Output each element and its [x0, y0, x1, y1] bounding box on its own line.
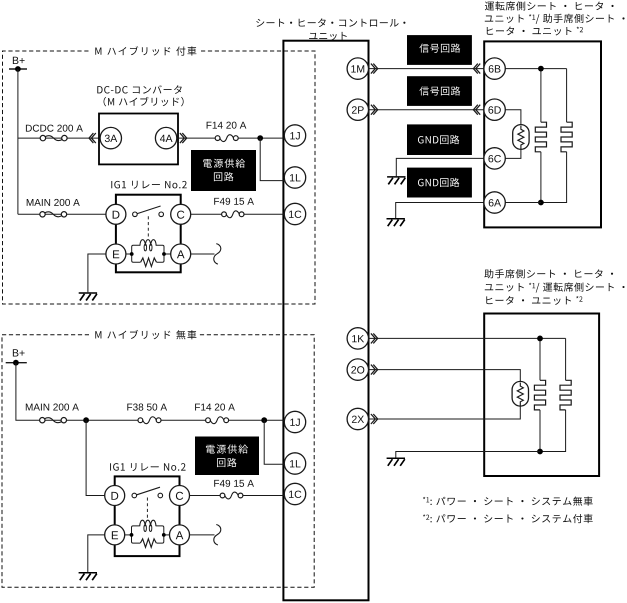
GND circuit block 2	[407, 168, 472, 198]
junction node coil left	[130, 533, 134, 537]
junction node coil right	[162, 533, 166, 537]
wire DCDC link to DC-DC converter pin 3A	[67, 137, 101, 139]
relay IG1-No.2-bottom pin A	[170, 525, 190, 545]
wire 6B to heaters	[505, 68, 567, 70]
junction heater bottom (top unit)	[538, 200, 544, 206]
label IG1 relay No.2 (top)	[111, 181, 186, 189]
wire E node to coil	[125, 534, 132, 536]
connector chevron into 3A	[89, 133, 96, 143]
wire branch to pin 1L	[260, 138, 286, 181]
relay IG1-No.2-bottom contact circle right	[158, 493, 163, 498]
label GND circuit 2	[418, 178, 459, 187]
label GND circuit 1	[418, 135, 459, 144]
label power supply circuit line2 (bottom)	[217, 458, 237, 467]
wire coil to A node	[164, 253, 171, 255]
DC-DC converter pin 3A	[100, 127, 121, 148]
wire branch to pin 1L (bottom)	[264, 420, 286, 464]
junction relay branch (bottom)	[83, 417, 89, 423]
power supply circuit block (top)	[191, 150, 256, 191]
wire MAIN row	[18, 213, 40, 215]
chevron out of 2X	[371, 414, 378, 424]
heater element 2 (bottom unit)	[565, 338, 567, 380]
footnote 1	[423, 497, 429, 503]
wire 4A to F14 fuse	[177, 137, 216, 139]
control unit pin 2X	[347, 408, 368, 429]
relay IG1-No.2-top switch blade	[137, 206, 160, 214]
wire F49 to pin 1C (bottom)	[243, 495, 286, 497]
heater unit header (bottom)	[484, 269, 613, 278]
wire thermistor to 2X	[368, 406, 520, 420]
label B+ (top)	[13, 57, 25, 64]
DC-DC converter pin 4A	[155, 127, 176, 148]
wire relay C to F49 (bottom)	[190, 495, 221, 497]
junction heater top (bottom unit)	[537, 336, 543, 342]
wire B+ down to MAIN row	[17, 69, 19, 214]
label signal circuit 2	[419, 86, 460, 95]
heater element 2 (top unit)	[566, 69, 568, 123]
DC-DC converter box	[99, 114, 178, 165]
wire relay A continuation	[191, 253, 215, 255]
wire relay E to ground	[88, 254, 106, 292]
ground (bottom relay)	[79, 573, 97, 581]
thermistor (bottom unit)	[512, 381, 528, 406]
chevron out of 1K	[371, 333, 378, 343]
M hybrid equipped option dashed box	[3, 51, 316, 304]
relay IG1-No.2-bottom resistor	[140, 539, 156, 548]
wire MAIN link to relay D	[66, 213, 106, 215]
heater unit pin 6D	[484, 99, 505, 120]
wire relay A continuation (bottom)	[190, 534, 215, 536]
control unit pin 1J (top)	[284, 125, 305, 146]
label DCDC 200 A	[26, 125, 83, 132]
relay IG1-No.2-bottom coil	[140, 520, 156, 526]
fusible link MAIN 200 A (top)	[40, 212, 45, 217]
ground (6C)	[387, 177, 405, 185]
chevron out of 2O	[371, 365, 378, 375]
wire 2P to 6D	[368, 109, 484, 111]
wire MAIN to F38	[66, 419, 138, 421]
label MAIN 200 A (bottom)	[26, 404, 79, 411]
control unit pin 2O	[347, 359, 368, 380]
node B+ (top)	[9, 68, 27, 70]
chevron out of 1M	[371, 64, 378, 74]
relay IG1-No.2-bottom contact circle left	[132, 493, 137, 498]
relay IG1-No.2-bottom pin E	[105, 525, 125, 545]
chevron into 6B	[473, 64, 480, 74]
label power supply circuit line1 (top)	[203, 159, 245, 168]
wire F38 to F14	[161, 419, 206, 421]
wire F14 to pin 1J	[238, 137, 286, 139]
relay IG1-No.2-bottom box	[115, 476, 180, 556]
fuse F14 20 A (bottom)	[206, 418, 211, 423]
wire thermistor to 6C	[505, 149, 521, 159]
thermistor (top unit)	[513, 125, 529, 150]
control unit pin 1C (bottom)	[284, 483, 305, 504]
label DC-DC converter line2	[104, 97, 184, 107]
junction node coil right	[162, 252, 166, 256]
label F49 15 A (bottom)	[214, 480, 254, 487]
label IG1 relay No.2 (bottom)	[110, 463, 185, 471]
control unit pin 1L (top)	[284, 167, 305, 188]
relay IG1-No.2-bottom coil/resistor frame	[132, 526, 164, 543]
heater element 1 (bottom unit)	[539, 338, 541, 380]
junction heater bottom (bottom unit)	[537, 449, 543, 455]
relay IG1-No.2-bottom coil link (dashed)	[146, 498, 148, 519]
wire junction down to relay D (bottom)	[86, 420, 105, 495]
wire 6A to heater bottoms	[505, 202, 541, 204]
label B+ (bottom)	[13, 349, 25, 356]
wire coil to A node	[164, 534, 170, 536]
relay IG1-No.2-top resistor	[141, 258, 157, 267]
relay IG1-No.2-bottom pin C	[170, 486, 190, 506]
wire 2O to thermistor	[368, 370, 520, 383]
label F14 20 A (bottom)	[195, 404, 235, 411]
relay IG1-No.2-bottom pin D	[105, 486, 125, 506]
chevron into 6D	[473, 105, 480, 115]
connector chevron out of 4A	[180, 133, 187, 143]
relay IG1-No.2-top pin D	[106, 204, 126, 224]
wire continuation curl (bottom relay A)	[214, 525, 221, 546]
footnote 2	[423, 514, 429, 520]
fuse F49 15 A (bottom)	[220, 493, 225, 498]
relay IG1-No.2-bottom switch blade	[137, 487, 160, 495]
wire 1M to 6B	[368, 68, 484, 70]
relay IG1-No.2-top pin C	[171, 204, 191, 224]
heater element 1 (top unit)	[540, 69, 542, 123]
wire relay C to F49	[191, 213, 222, 215]
control unit title	[256, 18, 405, 27]
relay IG1-No.2-top pin E	[106, 244, 126, 264]
wire heater bottoms to ground (bottom unit)	[396, 452, 540, 458]
power supply circuit block (bottom)	[195, 437, 259, 476]
ground (top relay)	[79, 293, 97, 301]
label signal circuit 1	[419, 43, 460, 52]
relay IG1-No.2-top pin A	[171, 244, 191, 264]
signal circuit block 1	[407, 35, 472, 65]
label F49 15 A (top)	[214, 198, 254, 205]
junction node coil left	[130, 252, 134, 256]
fuse F38 50 A	[138, 418, 143, 423]
label power supply circuit line2 (top)	[214, 172, 234, 181]
heater unit pin 6B	[484, 58, 505, 79]
label DC-DC converter line1	[97, 85, 181, 94]
ground (6A)	[387, 219, 405, 227]
seat heater control unit box	[283, 41, 368, 601]
fusible link MAIN 200 A (bottom)	[40, 418, 45, 423]
control unit pin 1M	[347, 58, 368, 79]
relay IG1-No.2-top coil/resistor frame	[132, 245, 164, 262]
wire 6A to ground	[396, 203, 485, 219]
wire continuation curl (top relay A)	[214, 244, 221, 265]
control unit pin 1K	[347, 328, 368, 349]
node B+ (bottom)	[6, 362, 27, 364]
seat heater unit box (bottom right)	[484, 314, 599, 477]
wire relay E to ground (bottom)	[88, 535, 105, 572]
control unit pin 1L (bottom)	[284, 453, 305, 474]
heater unit header (top)	[485, 1, 614, 10]
label power supply circuit line1 (bottom)	[206, 444, 248, 453]
wire 6C to ground	[396, 158, 484, 176]
wire 6D to thermistor	[505, 110, 521, 126]
junction 1J/1L branch (bottom)	[261, 417, 267, 423]
label MAIN 200 A (top)	[27, 199, 80, 206]
chevron out of 2P	[371, 105, 378, 115]
wire B+ down to MAIN row (bottom)	[16, 363, 40, 421]
fusible link DCDC 200 A	[40, 135, 45, 140]
relay IG1-No.2-top box	[116, 195, 181, 273]
wire DCDC branch	[18, 137, 41, 139]
control unit pin 1C (top)	[284, 203, 305, 224]
heater unit pin 6C	[484, 148, 505, 169]
fuse F49 15 A (top)	[222, 212, 227, 217]
seat heater unit box (top right)	[484, 41, 601, 227]
label F14 20 A (top)	[207, 122, 247, 129]
wire 1K to heaters	[368, 337, 565, 339]
dashed box1 label	[95, 46, 196, 55]
ground (bottom unit)	[387, 458, 405, 466]
relay IG1-No.2-top contact circle left	[133, 212, 138, 217]
control unit pin 2P	[347, 99, 368, 120]
fuse F14 20 A (top)	[215, 136, 220, 141]
junction 1J/1L branch (top)	[257, 135, 263, 141]
wire E node to coil	[126, 253, 132, 255]
M hybrid not-equipped option dashed box	[2, 335, 314, 588]
relay IG1-No.2-top contact circle right	[159, 212, 164, 217]
dashed box2 label	[95, 330, 196, 339]
relay IG1-No.2-top coil link (dashed)	[147, 216, 149, 238]
relay IG1-No.2-top coil	[140, 240, 156, 246]
heater unit pin 6A	[484, 192, 505, 213]
GND circuit block 1	[407, 124, 472, 155]
signal circuit block 2	[407, 76, 472, 106]
wire F14 to pin 1J (bottom)	[228, 419, 286, 421]
label F38 50 A	[127, 404, 167, 411]
control unit pin 1J (bottom)	[284, 411, 305, 432]
junction heater top (top unit)	[538, 66, 544, 72]
wire F49 to pin 1C	[244, 213, 286, 215]
